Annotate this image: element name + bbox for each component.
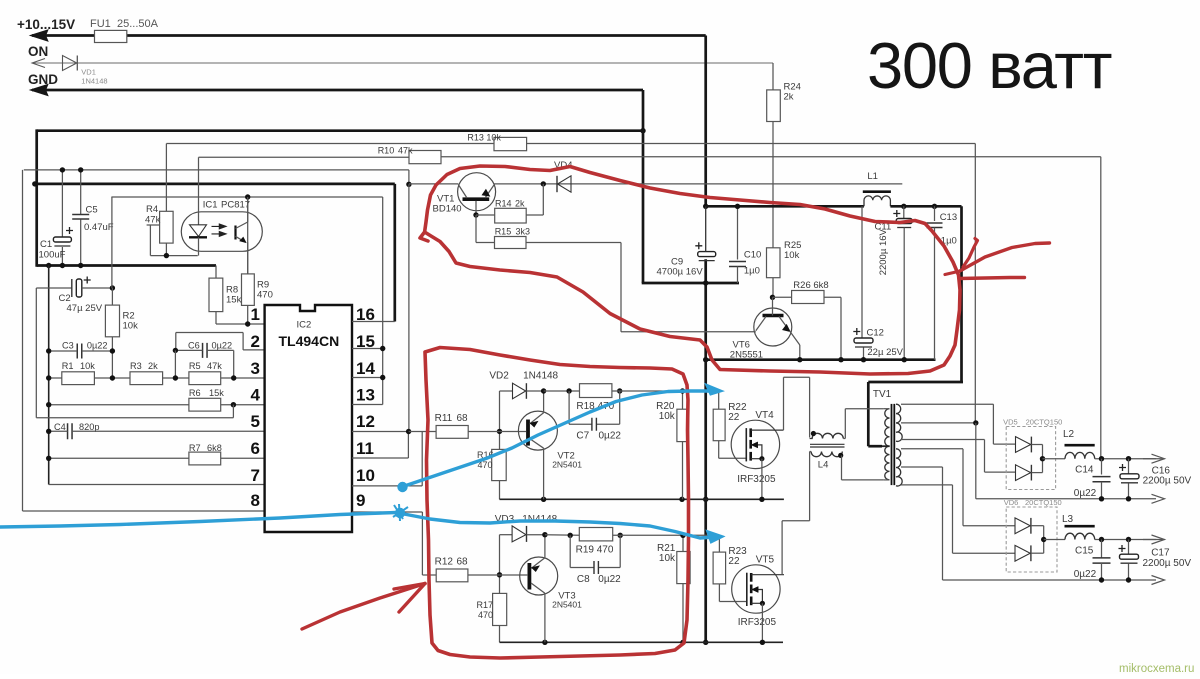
svg-text:R1: R1	[62, 361, 74, 371]
svg-text:L2: L2	[1063, 429, 1075, 440]
junction C5 bottom	[78, 263, 83, 268]
svg-text:BD140: BD140	[433, 204, 462, 215]
svg-text:0.47uF: 0.47uF	[84, 222, 114, 233]
junction C17 bottom	[1126, 577, 1131, 582]
capacitor C6	[203, 343, 208, 358]
inductor L4 bottom winding	[811, 452, 842, 457]
svg-text:C1: C1	[40, 239, 52, 250]
junction C13 top	[932, 204, 937, 209]
wire pin2 jog	[243, 349, 265, 351]
junction VD4 anode / R14 node	[541, 181, 546, 186]
resistor R24	[767, 90, 781, 122]
op-amp U IC2 TL494CN body	[265, 305, 352, 532]
wire VT4 source down to rail	[761, 459, 763, 500]
wire C2 left rail x=36.3	[35, 288, 37, 418]
wire +10..15V rail to fuse and right	[32, 34, 706, 37]
svg-text:3: 3	[251, 359, 260, 378]
diode IC1 internal LED	[190, 225, 207, 237]
blue arrowhead at VT5 gate	[707, 531, 723, 543]
capacitor C5	[80, 170, 82, 214]
wire aux feedback drop x=975.3	[974, 144, 976, 423]
resistor R17	[493, 593, 507, 625]
red loop around VT1/VD4 and output caps	[420, 166, 960, 374]
junction left rail top x=48.7 on thick GND rail	[46, 263, 51, 268]
svg-text:C3: C3	[62, 341, 74, 351]
wire thick GND top border	[37, 129, 645, 132]
wire left rail x=48.7 down to pin7 row	[48, 266, 50, 485]
wire R26 right down to GND rail	[824, 296, 841, 298]
wire secondary D to VD6 top anode	[901, 448, 963, 450]
wire thick GND mid horizontal y=184	[35, 183, 395, 186]
node L4 top polarity dot	[811, 431, 816, 436]
junction R20 top	[680, 388, 685, 393]
optocoupler IC1 PC817 body	[181, 212, 262, 252]
wire pin4 row y=404.7	[49, 404, 189, 406]
wire GND link x=705.7 to VT2 bottom rail	[704, 360, 707, 500]
resistor R19	[579, 528, 612, 541]
TV1 primary bumps top half	[885, 409, 890, 446]
svg-text:1N4148: 1N4148	[523, 371, 558, 382]
wire R15 right to VT6 collector	[526, 242, 621, 244]
resistor R25	[767, 248, 781, 278]
svg-text:10k: 10k	[659, 553, 676, 564]
transistor VT4 IRF3205	[731, 420, 779, 468]
svg-text:VT5: VT5	[756, 555, 775, 566]
transistor IC1 phototransistor	[234, 226, 236, 240]
wire gate feed VT5 via R23	[683, 534, 719, 536]
capacitor C8 parallel branch	[569, 535, 571, 567]
junction VT3 collector on rail	[542, 640, 547, 645]
svg-text:8: 8	[251, 491, 260, 510]
resistor R18	[580, 384, 612, 398]
wire VT4 drain to L4 top	[783, 377, 785, 430]
junction R11/VD2/R16 node	[497, 429, 502, 434]
resistor R26	[773, 296, 792, 298]
capacitor C13	[934, 206, 936, 221]
wire VD5 output to L2	[1043, 458, 1066, 460]
resistor R16	[492, 449, 507, 480]
junction C5 top	[78, 167, 83, 172]
svg-text:300 ватт: 300 ватт	[867, 29, 1112, 102]
junction R21 top	[680, 533, 685, 538]
svg-text:0µ22: 0µ22	[1074, 569, 1097, 580]
wire R13 right to TV1 aux drop	[527, 143, 976, 145]
wire +12 drop x=408.9 from y=170 line to pin12	[408, 170, 410, 184]
resistor R3	[130, 372, 163, 385]
svg-text:4: 4	[251, 386, 261, 405]
svg-text:2k: 2k	[148, 361, 158, 371]
svg-text:2k: 2k	[784, 92, 794, 103]
transistor VT2 2N5401	[518, 411, 557, 450]
wire R10 right to +12V output sense	[441, 156, 1101, 158]
svg-text:R7: R7	[189, 443, 201, 453]
wire R4/LED cathode bottom wire y=255.6	[150, 255, 197, 257]
svg-text:IRF3205: IRF3205	[737, 474, 776, 485]
junction VT6 base node	[770, 295, 775, 300]
wire GND line	[32, 89, 643, 92]
svg-text:L4: L4	[818, 460, 829, 471]
junction VT2 collector on rail	[541, 497, 546, 502]
resistor R14	[476, 214, 495, 216]
wire VT1 base lead down	[475, 201, 477, 215]
node L4 bottom polarity dot	[838, 453, 843, 458]
svg-text:11: 11	[356, 439, 374, 458]
TV1 core bars	[891, 404, 893, 485]
wire pins13-15 vertical from feedback line y=197	[382, 197, 384, 405]
wire R4 feedback line y=143.5	[166, 143, 494, 145]
wire VT5 source down to rail	[761, 603, 763, 642]
capacitor C11 electrolytic	[903, 206, 905, 218]
capacitor C1 electrolytic	[61, 170, 63, 237]
wire GND link x=705.7 to VT3 bottom rail	[704, 499, 707, 642]
L4 core lines	[810, 443, 845, 445]
svg-text:470: 470	[257, 290, 273, 301]
wire R12 to VT3 base	[500, 574, 528, 576]
svg-text:mikrocxema.ru: mikrocxema.ru	[1119, 663, 1194, 674]
diode VD1	[63, 56, 77, 71]
junction C9 bottom on GND rail	[703, 280, 708, 285]
wire VD3 anode drop x=499.5	[499, 535, 501, 594]
junction +12 at VT1 emitter line	[406, 182, 411, 187]
wire R2 top lead from y=197 line	[111, 197, 113, 288]
junction VT3 bottom rail at x=705.7	[703, 640, 708, 645]
svg-text:R6: R6	[189, 388, 201, 398]
junction C1 top	[60, 167, 65, 172]
wire thick drop to TV1 center tap	[867, 382, 870, 446]
svg-text:R14: R14	[495, 199, 512, 209]
svg-text:15k: 15k	[209, 388, 224, 398]
resistor R23	[713, 552, 726, 584]
svg-text:VD2: VD2	[489, 371, 509, 382]
junction C15 bottom	[1099, 577, 1104, 582]
junction VT1 base node	[473, 212, 478, 217]
transistor VT5 IRF3205	[732, 565, 780, 613]
svg-text:C8: C8	[577, 574, 590, 585]
resistor R9	[247, 197, 249, 274]
wire thick GND left vertical	[35, 129, 38, 266]
svg-text:VD1: VD1	[81, 68, 96, 77]
wire output sense drop x=1100.8	[1100, 157, 1102, 459]
svg-text:TL494CN: TL494CN	[279, 333, 340, 349]
svg-text:14: 14	[356, 359, 375, 378]
blue trace pin9 to VT5 gate	[0, 513, 396, 528]
svg-text:9: 9	[356, 491, 365, 510]
wire pin4 jog down to y=417.7 line	[232, 405, 234, 418]
svg-text:C12: C12	[867, 328, 884, 339]
wire VT2 emitter up to VD2 line	[543, 391, 545, 413]
wire pin10 link up to R11 wire	[421, 432, 423, 486]
svg-text:C13: C13	[940, 212, 957, 223]
junction pin12/R11 node	[406, 429, 411, 434]
svg-text:20CTQ150: 20CTQ150	[1025, 498, 1062, 507]
svg-text:25...50A: 25...50A	[117, 18, 159, 30]
wire L4 top right to TV1 primary top	[843, 438, 845, 440]
wire pin10 row	[352, 485, 422, 487]
wire R25 bottom to VT6 base	[772, 278, 774, 298]
wire pin5 row y=431.3	[49, 430, 68, 432]
wire pin9 row	[352, 511, 422, 513]
IC1 light arrows	[212, 224, 227, 229]
capacitor C16 electrolytic	[1128, 459, 1130, 474]
wire L4 bottom right to TV1 primary bottom	[841, 455, 843, 480]
diode VD5 upper	[1016, 437, 1031, 453]
wire C3 row y=351	[49, 350, 77, 352]
svg-text:C10: C10	[744, 250, 761, 261]
capacitor C4	[68, 423, 73, 439]
svg-text:L1: L1	[867, 171, 878, 182]
svg-text:20CTQ150: 20CTQ150	[1026, 417, 1063, 426]
svg-text:VD6: VD6	[1004, 498, 1019, 507]
wire VT6 emitter down to GND rail	[790, 331, 800, 345]
wire R4 left side stub and bypass	[147, 224, 160, 226]
wire GND drop from GND arrow line	[642, 90, 645, 131]
wire thick GND rail y=359.7	[706, 358, 936, 361]
junction GND mid rail at left vertical	[32, 181, 37, 186]
wire thick +12V rail after L1	[890, 205, 961, 208]
svg-text:1: 1	[251, 305, 260, 324]
svg-text:R15: R15	[495, 227, 512, 237]
svg-text:820p: 820p	[79, 422, 99, 432]
wire thick rail C9/C10 bottom y=283	[642, 282, 739, 285]
wire thick GND bottom rail y=265.5	[37, 264, 216, 267]
wire C9 bottom lead / GND link x=705.7	[704, 259, 707, 359]
svg-text:100uF: 100uF	[39, 250, 66, 261]
resistor R13	[494, 137, 527, 150]
svg-text:68: 68	[457, 557, 469, 568]
diode VD6 upper	[1015, 518, 1030, 534]
resistor R8	[215, 266, 217, 279]
junction pin15 tie	[380, 346, 385, 351]
resistor R5	[189, 372, 221, 385]
junction C2 right at R2 line	[110, 285, 115, 290]
wire pin8 row y=511	[23, 510, 265, 512]
svg-text:22: 22	[728, 556, 740, 567]
junction IC1 collector / R9 top node	[245, 194, 250, 199]
svg-text:C6: C6	[188, 341, 200, 351]
svg-text:C5: C5	[86, 205, 98, 216]
svg-text:GND: GND	[28, 72, 58, 87]
inductor L4 top winding	[810, 433, 844, 438]
wire VT3 collector down to rail	[544, 593, 546, 642]
blue blob pin9	[395, 508, 405, 518]
svg-text:C17: C17	[1151, 548, 1170, 559]
svg-text:22: 22	[728, 412, 740, 423]
wire pin13 row	[352, 404, 383, 406]
wire IC1 LED anode from y=157 line	[198, 157, 200, 225]
svg-text:6k8: 6k8	[207, 443, 222, 453]
junction pin14 tie	[380, 375, 385, 380]
svg-text:R3: R3	[130, 361, 142, 371]
svg-text:L3: L3	[1062, 514, 1074, 525]
wire VT2 bottom rail y=499.3	[500, 498, 784, 500]
wire TV1 center tap stub	[882, 445, 890, 447]
red arrow pointing to TL494 outputs	[302, 584, 425, 630]
wire VD2 anode drop x=499.5	[499, 391, 501, 449]
transistor VT1 BD140	[458, 173, 496, 211]
red knot scribble near C13	[945, 272, 958, 275]
junction +12V at C9 top rail	[703, 204, 708, 209]
svg-text:0µ22: 0µ22	[87, 341, 108, 351]
resistor R6	[189, 398, 221, 411]
svg-text:FU1: FU1	[90, 18, 111, 30]
junction VT3 emitter node	[542, 532, 547, 537]
junction R12/VD3/R17 node	[497, 572, 502, 577]
svg-text:0µ22: 0µ22	[599, 431, 622, 442]
resistor R4	[165, 144, 167, 212]
capacitor C9 electrolytic	[695, 242, 702, 249]
wire +12V thin top line y=170 with C5/C1 taps	[24, 169, 409, 171]
wire pin6 row y=458.3	[49, 457, 189, 459]
wire TV1 primary top lead	[883, 408, 889, 410]
junction C17 top	[1126, 537, 1131, 542]
diode VD5 lower	[1016, 465, 1031, 481]
wire C6 row	[175, 349, 202, 351]
resistor R10	[409, 151, 441, 164]
wire VD6 cathode join	[1031, 525, 1044, 527]
svg-text:R19 470: R19 470	[576, 545, 614, 556]
wire thick right box bottom y=382	[868, 381, 963, 384]
svg-text:2k: 2k	[515, 199, 525, 209]
wire VT1 emitter line y=183.9	[409, 183, 458, 185]
wire VD4 line from VT1 to L1	[494, 183, 902, 185]
junction R9 bottom on pin1 wire	[245, 321, 250, 326]
junction C1 bottom	[60, 263, 65, 268]
svg-text:R13 10k: R13 10k	[467, 133, 501, 143]
wire pin11 to pin12 link x=408.5	[407, 432, 409, 459]
wire VT3 emitter up to VD3 line	[544, 535, 546, 558]
svg-text:470: 470	[478, 610, 493, 620]
wire L4 bottom left lead	[810, 451, 812, 453]
svg-text:2N5401: 2N5401	[552, 600, 582, 610]
wire secondary F to VD6 bottom anode	[901, 484, 953, 486]
wire secondary C to VD5 bottom anode	[901, 439, 985, 441]
svg-text:68: 68	[457, 413, 469, 424]
wire +12V main vertical drop x=705.7	[704, 36, 707, 207]
wire pin7 row y=484.5	[49, 484, 265, 486]
svg-text:5: 5	[251, 412, 260, 431]
svg-text:C14: C14	[1075, 465, 1094, 476]
svg-text:13: 13	[356, 386, 375, 405]
resistor R22	[713, 409, 725, 441]
wire VD5 cathode join	[1031, 444, 1042, 446]
blue blob pin10	[397, 482, 407, 492]
output arrow common upper	[1152, 494, 1165, 503]
svg-text:2200µ 50V: 2200µ 50V	[1143, 558, 1192, 569]
junction C16 bottom	[1126, 496, 1131, 501]
svg-text:2200µ 16V: 2200µ 16V	[878, 228, 889, 275]
TV1 secondary bumps lower (two windings)	[896, 449, 902, 486]
junction C11 top	[901, 204, 906, 209]
junction R18 right	[617, 388, 622, 393]
svg-text:R11: R11	[435, 413, 453, 424]
wire secondary E tap to output common lower	[901, 466, 943, 468]
wire ON line	[32, 62, 773, 64]
diode VD6 lower	[1015, 545, 1030, 561]
svg-text:47k: 47k	[207, 361, 222, 371]
capacitor C15	[1101, 540, 1103, 558]
transistor VT6 2N5551	[754, 308, 792, 346]
svg-text:0µ22: 0µ22	[212, 341, 233, 351]
wire VD6 output to L3	[1044, 539, 1065, 541]
wire thick GND drop to pin 16	[393, 184, 396, 322]
wire secondary A top end to VD5 top anode	[901, 403, 993, 405]
resistor R7	[189, 452, 221, 465]
junction VT2 bottom rail at x=705.7	[703, 497, 708, 502]
wire thick right box vertical x=961.5	[960, 206, 963, 383]
junction C14 top	[1099, 456, 1104, 461]
svg-text:R5: R5	[189, 361, 201, 371]
junction GND at main box top	[640, 128, 645, 133]
svg-text:R4: R4	[146, 204, 158, 215]
TV1 secondary bumps upper (two windings)	[896, 404, 902, 441]
wire VT3 bottom rail y=642.3	[500, 641, 784, 643]
svg-text:2N5401: 2N5401	[552, 460, 582, 470]
capacitor C14	[1101, 459, 1103, 475]
svg-text:TV1: TV1	[873, 389, 892, 400]
wire outer thin box left vertical x=22.5	[22, 170, 24, 511]
svg-text:1N4148: 1N4148	[81, 77, 107, 86]
junction R4 bottom	[164, 253, 169, 258]
svg-text:10k: 10k	[123, 321, 139, 332]
svg-text:6: 6	[251, 439, 260, 458]
junction R20 bottom on rail	[679, 497, 684, 502]
svg-text:IC1: IC1	[203, 200, 218, 211]
svg-text:47µ 25V: 47µ 25V	[67, 303, 103, 314]
svg-text:10: 10	[356, 466, 375, 485]
junction R19 left	[568, 533, 573, 538]
svg-text:IRF3205: IRF3205	[738, 617, 777, 628]
svg-text:C7: C7	[576, 431, 589, 442]
wire VD2 line to R18	[544, 390, 580, 392]
wire pin14 row	[352, 377, 383, 379]
svg-text:VD5: VD5	[1003, 417, 1018, 426]
output arrow lower +	[1152, 535, 1165, 544]
wire lower output line	[1095, 539, 1156, 541]
svg-text:R17: R17	[477, 600, 494, 610]
svg-text:ON: ON	[28, 44, 48, 59]
svg-text:2N5551: 2N5551	[730, 350, 763, 361]
resistor R1	[62, 372, 95, 385]
wire thick +12V rail y=206.3 to L1	[706, 205, 864, 208]
capacitor C17 electrolytic	[1128, 540, 1130, 555]
svg-text:IC2: IC2	[297, 320, 312, 331]
wire pin9 link down to R12 wire	[421, 512, 423, 575]
wire R24 bottom to R25 top	[772, 122, 774, 248]
fuse FU1	[95, 30, 127, 42]
resistor R12	[422, 574, 436, 576]
resistor R15	[475, 215, 477, 243]
wire GND vertical x=643 down to C9 bottom rail	[642, 131, 645, 283]
svg-text:4700µ 16V: 4700µ 16V	[657, 267, 704, 278]
junction aux feedback at tap	[973, 420, 978, 425]
svg-text:+10...15V: +10...15V	[17, 17, 75, 32]
wire pin1 row	[216, 323, 265, 325]
wire pin12 row	[352, 431, 409, 433]
blue trace pin10 to VT4 gate	[403, 391, 712, 487]
wire ON line corner down to R24	[772, 63, 774, 90]
wire VT2 collector down to rail	[543, 448, 545, 499]
diode pack VD6 20CTQ150 dashed box	[1006, 507, 1057, 572]
svg-text:0µ22: 0µ22	[598, 574, 621, 585]
svg-text:10k: 10k	[784, 250, 800, 261]
wire pin16 row to thick GND drop	[352, 321, 395, 323]
wire R11 to VT2 base	[500, 431, 527, 433]
svg-text:2200µ 50V: 2200µ 50V	[1143, 476, 1192, 487]
svg-text:R10: R10	[378, 146, 395, 156]
resistor R2	[111, 288, 113, 305]
diode pack VD5 20CTQ150 dashed box	[1006, 427, 1055, 490]
svg-text:10k: 10k	[80, 361, 95, 371]
